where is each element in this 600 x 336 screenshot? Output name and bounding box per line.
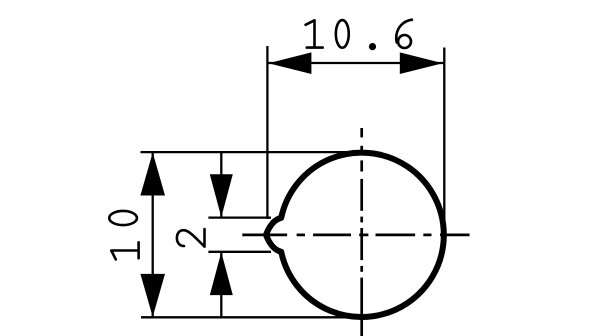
extension + dimension thin lines [141,46,445,317]
dim 2 upper leg [220,153,222,218]
arrowheads [140,52,442,317]
top extension line of dim 10 [141,151,363,153]
dim line 10 [152,152,154,317]
dim 2 bottom arrow (pointing up) [210,252,233,295]
dim 10.6 left arrow [268,52,311,74]
label 2 (rotated) [177,229,205,247]
label 10.6 : digit 0 [336,20,349,48]
label 10.6 : digit 1 [306,20,323,47]
dim 10 top arrow [140,153,165,196]
dim 2 top extension [208,216,271,218]
dim 10.6 right arrow [400,52,443,74]
dim line 10.6 [267,62,444,64]
label 10.6 : decimal point [369,43,376,50]
bottom extension line of dim 10 [141,316,362,318]
dim 2 bottom extension [208,251,271,253]
dim 2 top arrow (pointing down) [210,174,233,217]
profile outline: circle with left notch [266,153,444,317]
dim 10 bottom arrow [140,274,165,317]
label 10 (rotated) : digit 0 [109,211,137,225]
vertical centerline [360,128,363,336]
label 10.6 : digit 6 [396,20,412,48]
dim 2 lower leg [220,252,222,317]
right extension line of dim 10.6 [443,48,445,236]
label 10 (rotated) : digit 1 [111,242,138,259]
horizontal centerline [242,234,469,237]
left extension line of dim 10.6 [266,46,268,219]
